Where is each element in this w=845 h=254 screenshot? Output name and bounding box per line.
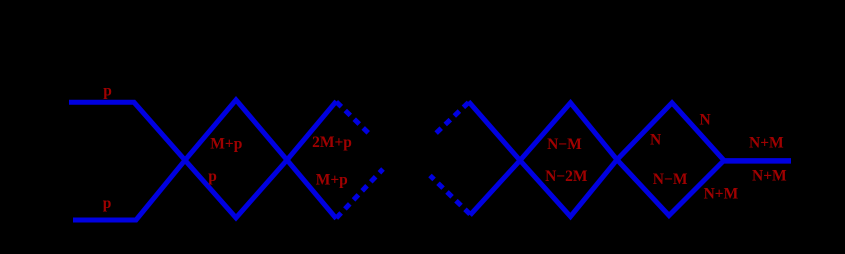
svg-text:M+p: M+p: [316, 171, 348, 188]
wire: dashed lead into right bottom vertex: [430, 176, 470, 215]
svg-text:N−M: N−M: [653, 171, 688, 188]
wire: dashed continuation from left bottom vertex: [336, 169, 383, 218]
wire: dashed lead into right top vertex: [433, 103, 469, 137]
svg-text:N−2M: N−2M: [545, 168, 588, 185]
wire: dashed continuation from left top vertex: [336, 102, 371, 136]
wire: right zigzag line from bottom vertex to junction: [470, 103, 724, 216]
svg-text:N+M: N+M: [704, 185, 739, 202]
wire: left incoming bottom line zigzag (momentum p): [73, 100, 336, 220]
svg-text:2M+p: 2M+p: [312, 134, 352, 151]
svg-text:N: N: [700, 112, 711, 129]
wire: left incoming top line with first zigzag (momentum p): [69, 101, 336, 218]
svg-text:N+M: N+M: [752, 168, 787, 185]
svg-text:p: p: [208, 168, 217, 185]
wire: right zigzag line from top vertex to junction: [469, 102, 725, 217]
wire: outgoing merged line N+M: [723, 158, 791, 164]
svg-text:p: p: [103, 195, 112, 212]
svg-text:N+M: N+M: [749, 135, 784, 152]
svg-text:M+p: M+p: [210, 135, 242, 152]
svg-text:N−M: N−M: [547, 136, 582, 153]
svg-text:p: p: [103, 82, 112, 99]
svg-text:N: N: [650, 132, 661, 149]
